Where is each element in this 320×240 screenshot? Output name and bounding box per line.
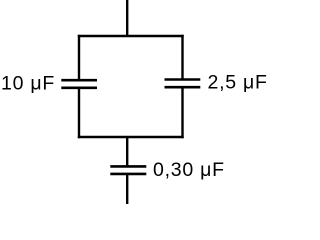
wire: top lead into node: [126, 0, 128, 36]
wire: bottom horizontal of parallel loop: [78, 136, 184, 138]
wire: right branch upper segment: [181, 35, 183, 80]
wire: top horizontal of parallel loop: [78, 35, 184, 37]
svg-text:0,30 μF: 0,30 μF: [153, 159, 225, 181]
svg-text:10 μF: 10 μF: [1, 72, 55, 94]
capacitor C3 0,30 μF (series): [110, 166, 146, 174]
wire: bottom lead out: [126, 174, 128, 204]
wire: left branch lower segment: [78, 88, 80, 138]
svg-text:2,5 μF: 2,5 μF: [208, 71, 268, 93]
capacitor C2 2,5 μF (right branch): [165, 80, 201, 88]
wire: series lead from loop down to C3: [126, 137, 128, 166]
capacitor C1 10 μF (left branch): [61, 80, 97, 88]
wire: right branch lower segment: [181, 87, 183, 138]
wire: left branch upper segment: [78, 35, 80, 80]
